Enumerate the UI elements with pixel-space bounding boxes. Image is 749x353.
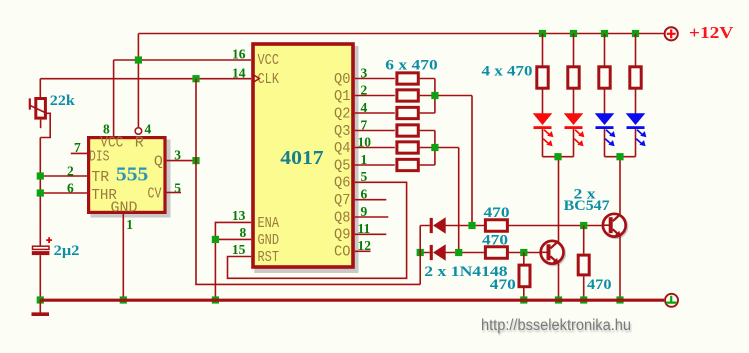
- svg-text:ENA: ENA: [258, 215, 280, 232]
- svg-text:2µ2: 2µ2: [54, 243, 80, 259]
- counter U2 4017 body: [253, 44, 353, 267]
- svg-text:Q3: Q3: [334, 123, 351, 140]
- wire top base row to T2: [506, 225, 612, 227]
- svg-text:http://bsselektronika.hu: http://bsselektronika.hu: [481, 317, 631, 334]
- resistor R base T1 470: [485, 247, 507, 259]
- wire LED pair 2 join: [605, 156, 636, 158]
- svg-text:13: 13: [232, 208, 246, 223]
- wire diode cathode bus vertical: [419, 226, 421, 285]
- svg-text:15: 15: [232, 242, 246, 257]
- capacitor C1 bottom plate: [32, 251, 50, 255]
- svg-text:Q4: Q4: [334, 140, 351, 157]
- transistor Q1 BC547: [541, 241, 565, 265]
- svg-text:14: 14: [232, 66, 246, 81]
- node junction pulldown T1 rail: [520, 296, 527, 303]
- node junction base T2 pulldown: [580, 222, 587, 229]
- wire Q7 stub: [355, 199, 387, 201]
- resistor R Q5 470: [397, 159, 418, 170]
- svg-text:6: 6: [67, 181, 74, 196]
- op-amp U1 555 body: [89, 138, 165, 213]
- svg-text:BC547: BC547: [564, 198, 611, 214]
- node junction T1 emitter rail: [555, 296, 562, 303]
- svg-text:7: 7: [74, 140, 81, 155]
- LED column 3 blue: [595, 30, 616, 157]
- svg-text:Q9: Q9: [334, 227, 351, 244]
- wire T1 emitter to rail: [558, 263, 560, 298]
- LED column 4 blue: [626, 30, 647, 157]
- resistor R Q2 470: [397, 107, 418, 118]
- node junction rail/VCC at 138,60: [135, 56, 142, 63]
- node junction ENA/GND: [212, 236, 219, 243]
- resistor 22k wiper diagonal: [30, 105, 50, 137]
- wire CO stub: [355, 250, 371, 252]
- resistor R Q1 470: [397, 90, 418, 101]
- wire 555 output down to diode bus: [196, 79, 420, 285]
- resistor R-trim 22k body: [36, 99, 46, 119]
- svg-text:CLK: CLK: [258, 71, 280, 88]
- wire RST pin15 loop to Q6: [228, 182, 407, 278]
- svg-text:CO: CO: [334, 244, 351, 261]
- svg-text:22k: 22k: [50, 93, 76, 109]
- diode D1 1N4148 top: [420, 225, 484, 227]
- svg-text:Q6: Q6: [334, 175, 351, 192]
- node junction bottom diode/bus: [455, 249, 462, 256]
- ground symbol right: [665, 294, 678, 307]
- ground symbol left: [39, 300, 41, 313]
- node junction LED pair 2: [616, 153, 623, 160]
- svg-text:2: 2: [67, 164, 74, 179]
- svg-text:TR: TR: [91, 169, 109, 186]
- svg-text:Q2: Q2: [334, 105, 351, 122]
- svg-text:1: 1: [126, 217, 133, 232]
- resistor R base T2 470: [485, 220, 507, 232]
- node junction cap/ground rail: [37, 296, 44, 303]
- wire LED pair 1 join: [543, 156, 574, 158]
- resistor R Q0 470: [397, 73, 418, 84]
- svg-text:R: R: [135, 135, 144, 152]
- node junction base T1 pulldown: [520, 249, 527, 256]
- ground rail: [40, 299, 664, 302]
- svg-text:RST: RST: [258, 249, 280, 266]
- op-amp U1 555 pin4 bubble: [135, 128, 142, 135]
- node junction THR: [37, 189, 44, 196]
- svg-text:4: 4: [145, 122, 152, 137]
- wire +12V top rail: [138, 33, 663, 35]
- clock input arrow 4017: [253, 74, 260, 83]
- node junction T2 emitter rail: [616, 296, 623, 303]
- node junction Q3-Q5 bus: [431, 144, 438, 151]
- wire Q0 to resistor: [355, 79, 435, 114]
- node junction LED pair 1: [554, 153, 561, 160]
- wire 555 Q output: [167, 160, 196, 162]
- shadow of 4017: [255, 46, 359, 273]
- svg-text:6 x 470: 6 x 470: [385, 58, 438, 74]
- wire vertical from rail to 555 pin4: [137, 34, 139, 128]
- svg-text:VCC: VCC: [258, 52, 280, 69]
- wire timing node vertical: [39, 138, 41, 247]
- node junction pulldown T2 rail: [580, 296, 587, 303]
- svg-text:8: 8: [103, 122, 110, 137]
- LED column 1 red: [533, 30, 554, 157]
- svg-text:Q1: Q1: [334, 88, 351, 105]
- wire TR pin2: [40, 175, 87, 177]
- wire bottom base row to T1: [506, 252, 550, 254]
- wire VCC line to 4017 pin16: [114, 60, 251, 136]
- resistor R pulldown T1 470: [523, 253, 525, 299]
- node junction Q0-Q2 bus: [431, 92, 438, 99]
- node junction top diode/bus: [468, 222, 475, 229]
- wire T1 collector: [558, 157, 560, 242]
- diode D2 1N4148 bottom: [420, 252, 484, 254]
- resistor R pulldown T2 470: [583, 226, 585, 299]
- svg-text:Q0: Q0: [334, 71, 351, 88]
- wire T2 emitter to rail: [619, 236, 621, 298]
- shadow of 555: [91, 140, 171, 218]
- svg-text:4017: 4017: [280, 147, 323, 169]
- wire 555 CV stub: [167, 192, 181, 194]
- wire THR pin6: [40, 192, 87, 194]
- wire CLK line: [40, 78, 251, 80]
- svg-text:+12V: +12V: [689, 23, 734, 42]
- svg-text:Q7: Q7: [334, 192, 351, 209]
- capacitor C1 2u2 plus sign: [46, 237, 52, 243]
- resistor R Q4 470: [397, 142, 418, 153]
- node junction ENA on rail: [212, 296, 219, 303]
- wire Q3 to resistor: [355, 131, 435, 166]
- wire Q1 to resistor and bus: [355, 96, 472, 226]
- svg-text:GND: GND: [258, 232, 280, 249]
- node junction Q output: [192, 157, 199, 164]
- svg-text:16: 16: [232, 47, 246, 62]
- svg-text:8: 8: [240, 225, 247, 240]
- LED column 2 red: [564, 30, 585, 157]
- resistor 22k wiper bar: [29, 98, 31, 109]
- wire Q2 to resistor: [355, 112, 435, 114]
- supply symbol +12V: [665, 27, 678, 40]
- svg-text:470: 470: [490, 277, 516, 293]
- svg-text:4 x 470: 4 x 470: [482, 63, 533, 79]
- node junction 555 gnd on rail: [120, 296, 127, 303]
- svg-text:CV: CV: [148, 186, 162, 203]
- wire Q4 to resistor and bus: [355, 148, 459, 253]
- node junction TR: [37, 172, 44, 179]
- node junction diode cathode vertical: [417, 249, 424, 256]
- wire 22k top connection: [39, 79, 41, 98]
- svg-text:470: 470: [587, 277, 612, 293]
- svg-text:Q8: Q8: [334, 209, 351, 226]
- wire Q8 stub: [355, 216, 389, 218]
- capacitor C1 top plate: [33, 246, 50, 249]
- node junction 555 output on CLK line: [192, 75, 199, 82]
- wire cap to ground: [39, 255, 41, 298]
- wire T2 collector: [619, 157, 621, 215]
- wire Q5 to resistor: [355, 164, 435, 166]
- resistor 22k bottom stub: [40, 120, 42, 129]
- wire 555 GND pin1 to rail: [122, 214, 124, 298]
- svg-text:555: 555: [116, 164, 148, 186]
- resistor R Q3 470: [397, 125, 418, 136]
- svg-text:Q: Q: [154, 154, 163, 171]
- svg-text:Q5: Q5: [334, 157, 351, 174]
- wire DIS pin7 stub: [71, 152, 87, 154]
- transistor Q2 BC547: [603, 214, 627, 238]
- svg-text:DIS: DIS: [89, 149, 110, 166]
- wire GND pin8: [215, 238, 251, 240]
- wire Q9 stub: [355, 233, 387, 235]
- wire ENA pin13: [215, 222, 251, 298]
